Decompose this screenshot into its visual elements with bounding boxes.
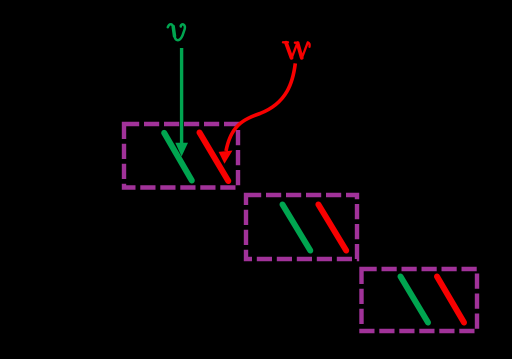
label w: [283, 42, 310, 58]
green segment in box 2: [283, 205, 311, 251]
red segment in box 2: [318, 205, 346, 251]
label v: [168, 24, 185, 40]
green segment in box 3: [401, 277, 429, 323]
green segment v in box 1: [164, 133, 192, 181]
arrow w head: [219, 151, 233, 164]
arrow v head: [175, 143, 188, 157]
arrow v shaft: [180, 48, 183, 144]
red segment in box 3: [437, 277, 464, 323]
box 3 (dashed): [362, 269, 478, 331]
box 2 (dashed): [246, 195, 357, 259]
box 1 (dashed): [124, 124, 238, 188]
arrow w curved shaft: [226, 63, 295, 151]
red segment w in box 1: [200, 133, 229, 182]
